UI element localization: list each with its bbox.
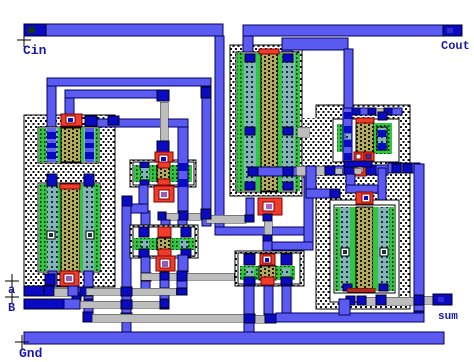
gray poly jog right of center — [297, 127, 309, 137]
contact tall-left cyan1 mid — [47, 231, 55, 239]
metal wire Cout bar — [243, 25, 462, 36]
svg-text:sum: sum — [438, 311, 458, 323]
poly wire down from B1 — [160, 102, 168, 141]
metal wire from middle-upper left contact down — [139, 185, 148, 213]
poly wire row B — [80, 301, 160, 308]
metal wire Va vertical — [47, 86, 56, 132]
middle-lower well — [130, 225, 198, 258]
metal wire lower horizontal to gate chain — [263, 242, 313, 250]
left well region — [24, 115, 115, 287]
metal wire V1 vertical — [202, 86, 211, 226]
metal wire center-bottom left leg to Gnd — [244, 286, 254, 332]
metal strap over upper-right green1 — [343, 108, 352, 162]
metal stub right of row a end — [177, 281, 187, 288]
contact lower-right cyan2 mid — [380, 248, 388, 256]
poly cap tall-left top — [60, 184, 80, 189]
metal wire center-bottom right leg — [282, 286, 291, 320]
metal wire W3 horizontal — [85, 119, 188, 127]
fence around upper-right transistor — [333, 119, 399, 162]
metal wire B0 horizontal — [47, 78, 211, 86]
metal wire Vb vertical — [65, 98, 74, 115]
poly contact middle-upper gate — [155, 152, 173, 166]
poly wire row3 — [92, 314, 244, 322]
metal strap over upper-left cyan1 — [47, 128, 56, 162]
metal wire from tall-left gate contact down — [72, 287, 81, 302]
right well region — [316, 105, 410, 309]
cursor cross Gnd — [15, 335, 29, 349]
center transistor diffusion — [236, 52, 297, 192]
lower-right transistor diffusion — [334, 205, 395, 293]
poly contact lower-right gate top — [356, 192, 373, 204]
contact tall-left cyan2 mid — [86, 231, 94, 239]
svg-text:Gnd: Gnd — [19, 346, 42, 361]
poly wire sum — [366, 297, 424, 305]
svg-text:a: a — [8, 283, 15, 297]
metal wire strap continuation cyan1 to row a — [48, 271, 57, 287]
metal wire from middle-lower bottom-left contact — [141, 257, 150, 295]
contact poly-metal — [157, 141, 169, 152]
center well region — [230, 45, 302, 196]
cursor cross B — [5, 290, 19, 304]
metal bar M crossing to right block — [248, 167, 313, 176]
metal wire bar2 top — [282, 38, 348, 50]
middle-upper well — [130, 160, 196, 187]
metal wire center bottom-left leg — [246, 198, 254, 216]
metal wire strap continuation cyan2 to row3 — [84, 271, 93, 315]
upper-left transistor diffusion — [38, 127, 99, 163]
poly contact tall-left gate bottom — [60, 271, 79, 286]
metal wire R1 vertical — [414, 164, 424, 321]
metal wire to R1 — [388, 163, 420, 173]
metal wire vertical J from bar M — [304, 176, 313, 249]
metal stubs down to middle-lower transistor — [161, 220, 170, 228]
poly contact mid row — [354, 165, 366, 176]
metal wire bar2 right leg into right block — [344, 49, 353, 108]
svg-text:Cin: Cin — [23, 43, 47, 58]
metal wire W3 leg through middle-upper right contact — [178, 127, 188, 220]
contact stub lower-right cyan1 bottom — [343, 284, 352, 291]
svg-text:B: B — [8, 301, 15, 315]
poly cap upper-right top — [356, 118, 374, 123]
poly wire row Y — [165, 213, 180, 220]
cursor cross a — [5, 274, 19, 288]
W3 contact in left block — [85, 116, 97, 126]
mid row entering block — [296, 166, 306, 175]
contact stub tall-left cyan1 top — [47, 174, 57, 186]
metal wire sum end — [424, 296, 433, 304]
metal wire B1 horizontal — [65, 90, 169, 98]
contact stub lower-right cyan2 bottom — [379, 284, 388, 291]
center transistor contacts — [245, 54, 255, 62]
svg-text:Cout: Cout — [441, 39, 470, 53]
metal wire Cout leg down — [243, 36, 253, 55]
center-bottom well — [235, 251, 304, 286]
Cin label contact — [24, 24, 46, 36]
Cout label contact — [443, 25, 462, 36]
contacts on row Y — [158, 212, 166, 220]
poly contact middle-lower gate below — [156, 256, 175, 271]
row a — [24, 286, 54, 296]
tall-left transistor diffusion — [38, 183, 100, 272]
metal wire V2 vertical from Cin — [215, 36, 224, 233]
row B — [24, 299, 64, 309]
metal wire V2 bottom horizontal — [215, 227, 313, 235]
navy sub-row — [344, 161, 372, 167]
routing row above upper-right fence — [352, 108, 360, 115]
metal wire bar2 left leg — [282, 50, 292, 57]
poly row under middle-lower transistor — [141, 273, 234, 280]
metal wire link to gnd vertical — [122, 204, 148, 213]
fence around lower-right transistor — [330, 200, 399, 302]
metal wire Cin bar — [24, 24, 223, 36]
poly contact middle-upper gate below — [154, 186, 174, 202]
B1 end contact — [157, 90, 169, 101]
metal wire S shape — [346, 174, 355, 187]
poly contact upper-left gate — [61, 114, 82, 126]
gate chain below center transistor — [263, 214, 272, 221]
contact lower-right cyan1 mid — [341, 248, 349, 256]
metal wire bar S — [276, 313, 424, 322]
metal wire from middle-lower bottom-right contact — [178, 255, 188, 272]
contact stub tall-left cyan2 top — [84, 174, 94, 186]
metal wire vertical to Gnd — [122, 206, 131, 332]
Gnd bar — [24, 332, 444, 344]
poly wire row a — [86, 288, 176, 295]
left-edge vertical wire — [306, 166, 316, 198]
lower-right bottom red strip — [347, 288, 375, 292]
poly contacts upper-right gate bottom — [354, 152, 364, 161]
cursor cross Cin — [17, 33, 31, 47]
poly contact center gate bottom — [258, 198, 282, 215]
metal wire from middle-lower gate down — [160, 280, 169, 309]
upper-right transistor diffusion — [336, 122, 389, 154]
upper-right green2 with cyan inner — [374, 123, 392, 154]
metal wire center-bottom middle leg — [264, 286, 273, 316]
poly cap center top — [259, 49, 279, 54]
middle-upper transistor body — [133, 162, 194, 185]
metal strap over upper-left cyan2 — [85, 128, 94, 162]
